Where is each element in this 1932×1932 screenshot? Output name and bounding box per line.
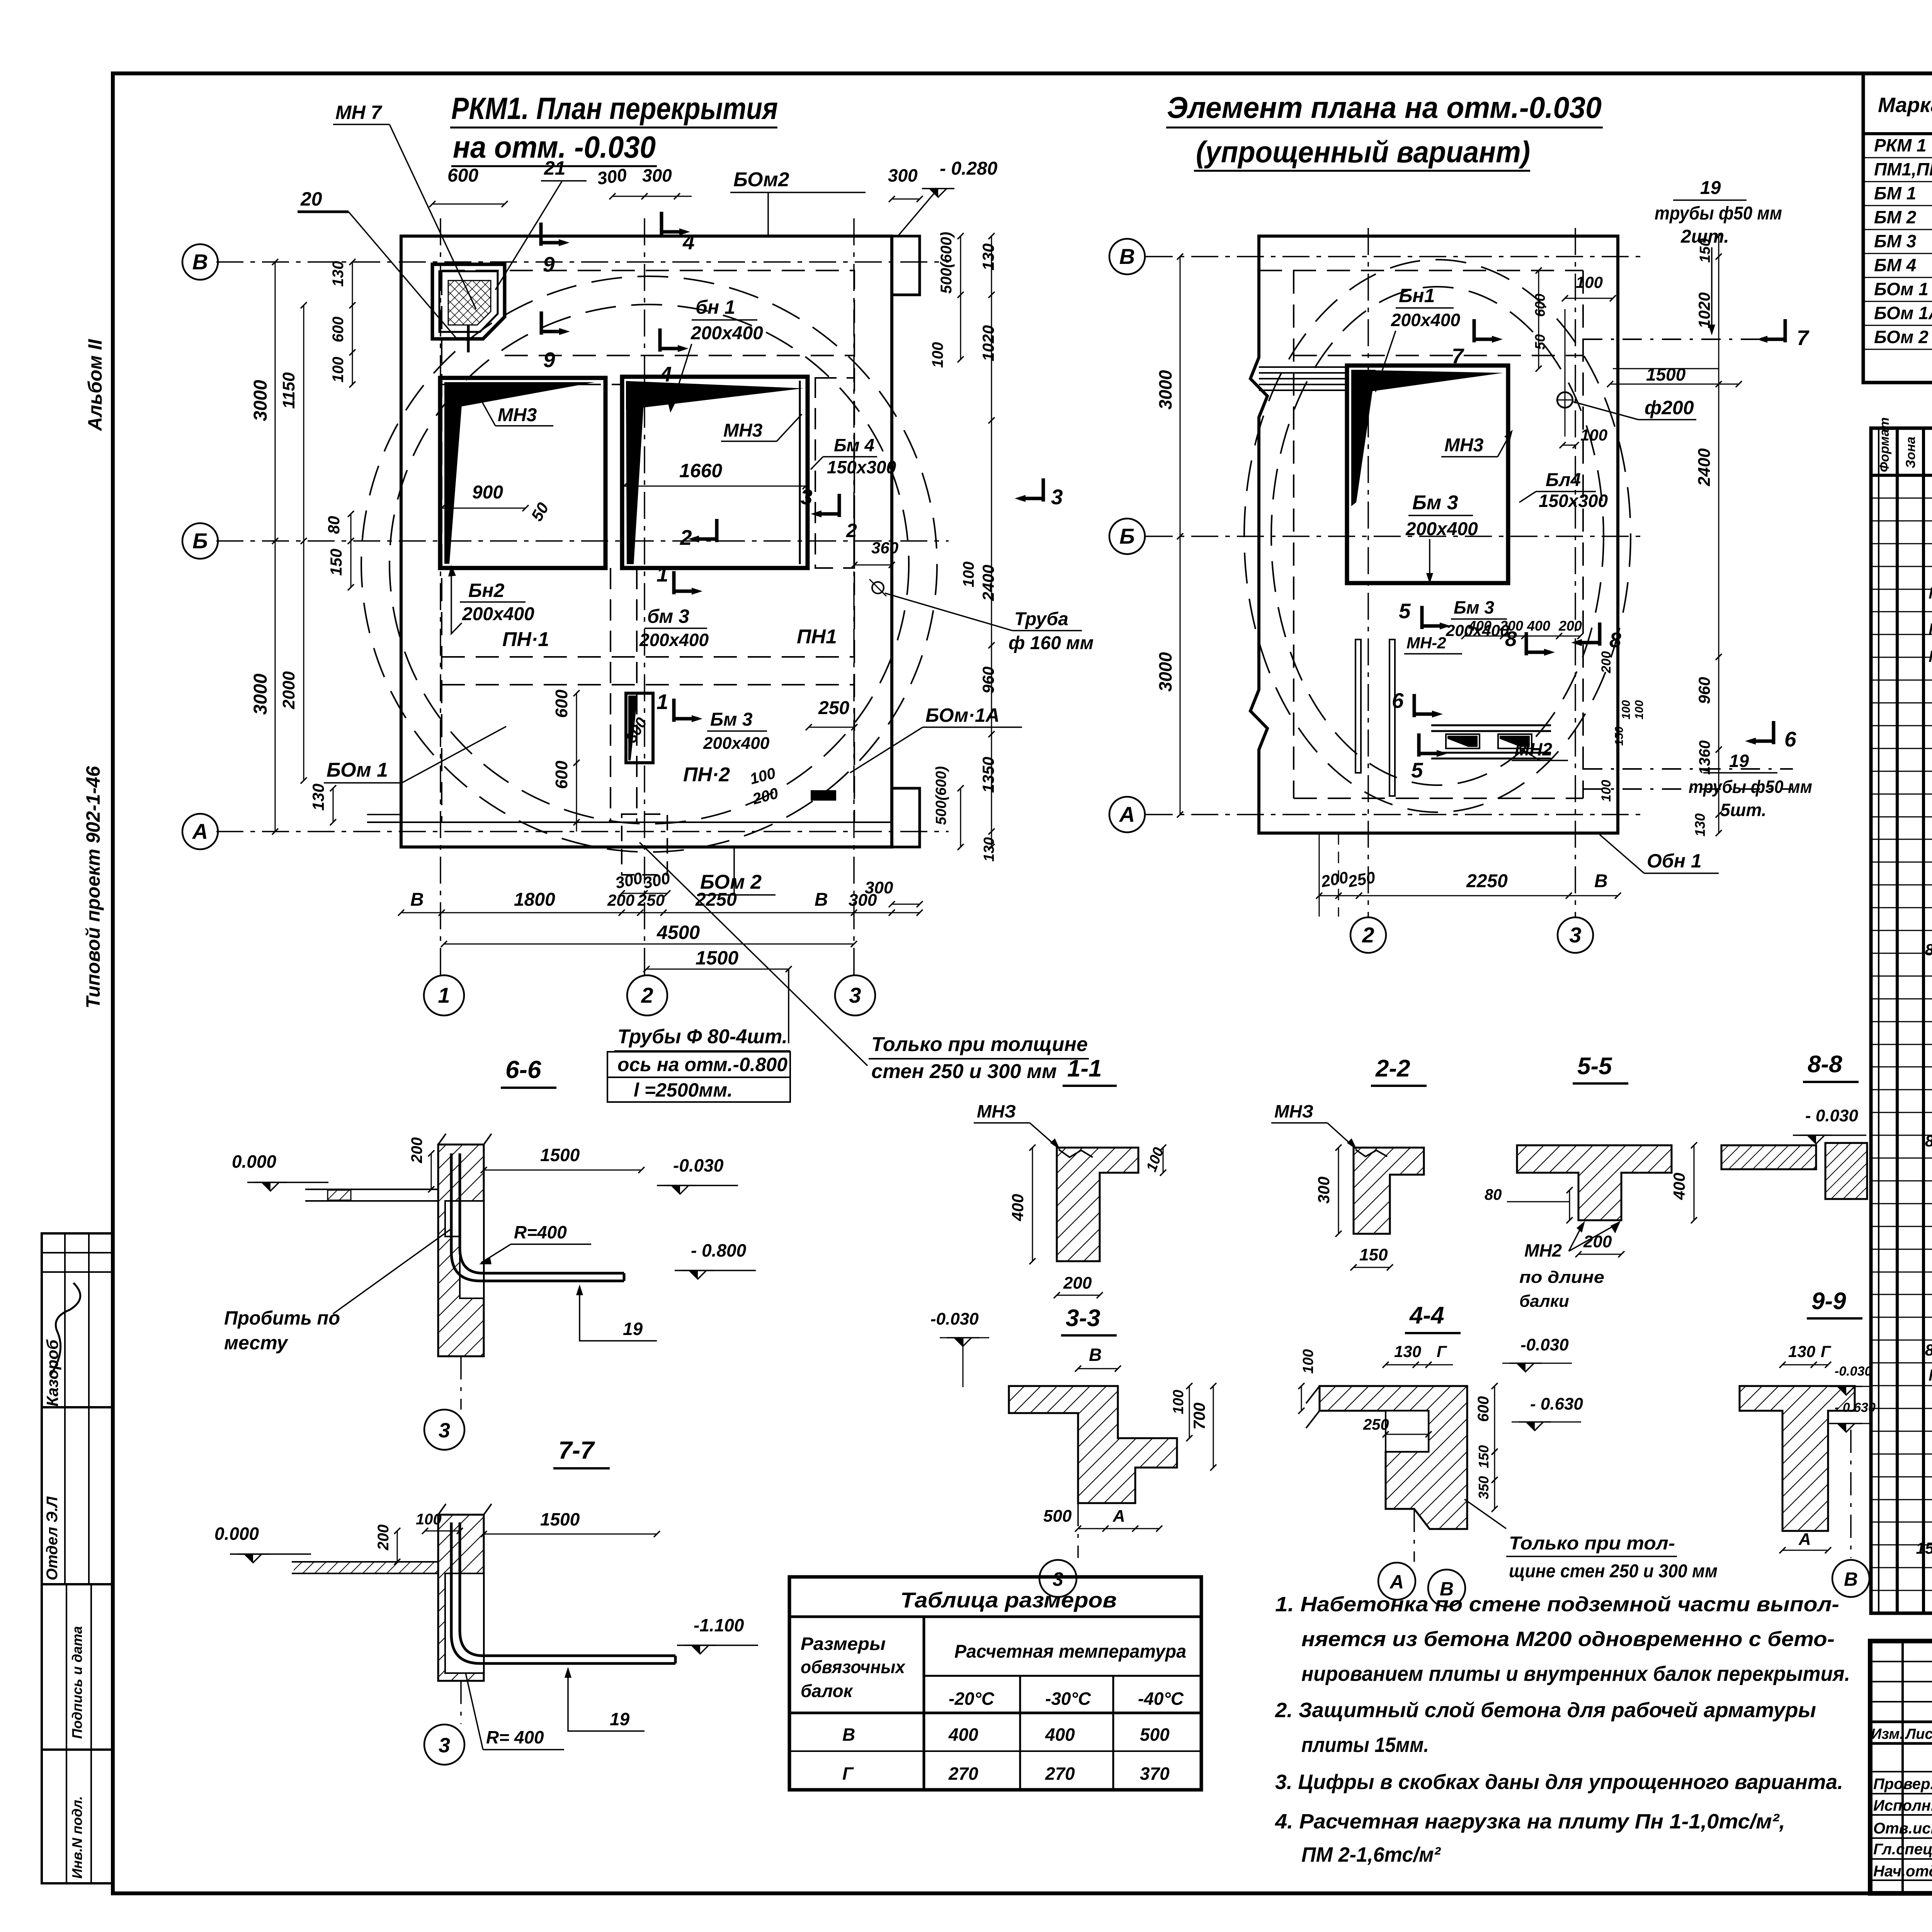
svg-text:МН2: МН2	[1524, 1240, 1562, 1260]
svg-text:Пробить по: Пробить по	[224, 1307, 340, 1329]
svg-text:100: 100	[1170, 1390, 1187, 1414]
svg-text:250: 250	[637, 891, 665, 909]
svg-text:130: 130	[1394, 1342, 1421, 1361]
svg-text:-1.100: -1.100	[694, 1615, 744, 1635]
svg-text:1350: 1350	[979, 757, 997, 793]
svg-text:370: 370	[1140, 1764, 1170, 1784]
svg-text:2250: 2250	[1466, 871, 1508, 891]
svg-text:3-3: 3-3	[1066, 1305, 1100, 1332]
svg-text:0.000: 0.000	[214, 1524, 259, 1544]
svg-text:4: 4	[660, 362, 672, 386]
svg-text:4-4: 4-4	[1409, 1302, 1444, 1329]
svg-text:2000: 2000	[279, 671, 298, 709]
plan2 dashed tank circles	[1244, 260, 1631, 812]
axis circle В	[182, 244, 218, 280]
plan2 top wall inner line	[1259, 270, 1583, 271]
section marker 1 (bottom)	[672, 571, 676, 594]
svg-text:Г: Г	[1821, 1342, 1832, 1361]
black niche on right wall	[811, 790, 836, 801]
big tank dashed circle inner	[389, 304, 909, 824]
svg-text:400: 400	[1045, 1725, 1075, 1745]
svg-text:400: 400	[1527, 618, 1550, 634]
svg-text:плиты 15мм.: плиты 15мм.	[1301, 1733, 1429, 1757]
plan2 axis line В	[1146, 256, 1644, 257]
svg-text:Исполн.: Исполн.	[1873, 1797, 1932, 1814]
svg-text:200: 200	[1599, 651, 1614, 673]
svg-text:по длине: по длине	[1519, 1268, 1604, 1287]
svg-text:Б: Б	[1119, 524, 1135, 548]
svg-text:600: 600	[1532, 294, 1548, 317]
svg-text:19: 19	[610, 1709, 630, 1729]
section 9-9 drawing	[1740, 1386, 1855, 1531]
svg-text:няется из бетона М200 одновре: няется из бетона М200 одновременно с бет…	[1301, 1628, 1835, 1651]
svg-text:270: 270	[948, 1764, 978, 1784]
axis circle 1	[424, 975, 464, 1015]
svg-text:2: 2	[641, 983, 653, 1007]
svg-text:9: 9	[543, 252, 555, 276]
svg-text:-30°С: -30°С	[1045, 1689, 1091, 1709]
svg-text:200х400: 200х400	[1391, 310, 1460, 330]
6-6 wall hatched	[438, 1145, 484, 1356]
svg-text:МН3: МН3	[498, 405, 537, 425]
svg-text:5-5: 5-5	[1577, 1053, 1612, 1080]
section marker 9 bottom	[540, 311, 543, 335]
svg-text:- 0.280: - 0.280	[940, 158, 998, 179]
svg-text:150х300: 150х300	[1539, 491, 1608, 511]
svg-text:РКМ1. План перекрытия: РКМ1. План перекрытия	[451, 91, 778, 126]
svg-text:250: 250	[818, 698, 849, 718]
svg-text:Бн2: Бн2	[468, 580, 505, 601]
svg-text:200: 200	[607, 891, 634, 909]
svg-text:Бм 3: Бм 3	[1454, 597, 1494, 617]
svg-text:R= 400: R= 400	[486, 1727, 544, 1747]
section 3-3 drawing	[1009, 1386, 1177, 1503]
svg-text:960: 960	[1695, 677, 1713, 704]
svg-text:8÷12: 8÷12	[1925, 940, 1932, 959]
svg-text:Казороб: Казороб	[43, 1339, 61, 1406]
svg-text:В: В	[815, 889, 828, 910]
svg-text:7-7: 7-7	[558, 1436, 595, 1464]
svg-text:В: В	[1089, 1345, 1102, 1365]
svg-text:БМ 3: БМ 3	[1874, 231, 1917, 251]
svg-text:200х400: 200х400	[690, 323, 763, 344]
plan2 axis circle В	[1109, 239, 1145, 274]
svg-text:А: А	[1112, 1507, 1125, 1526]
svg-text:1020: 1020	[979, 325, 997, 361]
svg-text:200х400: 200х400	[1405, 519, 1478, 539]
section 1-1 drawing	[1057, 1148, 1138, 1261]
svg-text:ПН·1: ПН·1	[502, 628, 549, 651]
svg-text:9-9: 9-9	[1811, 1288, 1846, 1315]
svg-text:Мн2: Мн2	[1929, 584, 1932, 602]
svg-text:4500: 4500	[656, 922, 700, 943]
svg-text:1500: 1500	[540, 1145, 580, 1165]
svg-text:трубы ф50 мм: трубы ф50 мм	[1689, 777, 1812, 797]
hatched opening МН7	[432, 264, 505, 339]
svg-text:Мн3: Мн3	[1929, 620, 1932, 638]
section 5-5 drawing	[1517, 1145, 1672, 1220]
svg-text:В: В	[1594, 871, 1608, 891]
svg-text:100: 100	[1599, 780, 1614, 802]
plan2 axis line Б	[1146, 536, 1644, 537]
section marker 2 (mid)	[715, 519, 719, 542]
section marker 9 top	[539, 223, 543, 246]
plan 1 wall protrusion bottom right	[892, 788, 920, 847]
opening 1 (left)	[440, 378, 605, 568]
svg-text:Расчетная температура: Расчетная температура	[954, 1641, 1186, 1662]
opening 1 bottom step	[440, 954, 441, 955]
plan 1 wall protrusion top right	[892, 236, 920, 295]
svg-text:МН3: МН3	[723, 420, 763, 441]
svg-text:МН3: МН3	[1444, 435, 1484, 456]
4-4 axis circles А В	[1413, 1509, 1415, 1562]
plan2 marker 6 right	[1772, 721, 1776, 744]
table2 row lines	[1871, 498, 1932, 499]
svg-text:1150: 1150	[279, 372, 298, 409]
svg-text:8-8: 8-8	[1808, 1051, 1842, 1078]
axis circle А	[182, 814, 218, 849]
svg-text:Отдел Э.Л: Отдел Э.Л	[44, 1496, 61, 1580]
svg-text:бн 1: бн 1	[696, 296, 735, 318]
svg-text:100: 100	[330, 357, 347, 383]
svg-text:3: 3	[801, 485, 813, 509]
axis line А	[216, 831, 949, 832]
plan2 marker 8 left	[1525, 632, 1528, 655]
svg-text:100: 100	[960, 561, 977, 587]
svg-text:Отв.исп.: Отв.исп.	[1873, 1820, 1932, 1837]
svg-text:-0.030: -0.030	[930, 1310, 979, 1328]
axis circle 3	[835, 975, 875, 1015]
svg-text:ПМ1,ПМ2: ПМ1,ПМ2	[1874, 159, 1932, 179]
svg-text:1: 1	[656, 690, 668, 714]
svg-text:5шт.: 5шт.	[1720, 800, 1767, 820]
svg-text:Зона: Зона	[1903, 437, 1918, 468]
svg-text:200: 200	[1558, 618, 1582, 634]
svg-text:МНЗ: МНЗ	[977, 1101, 1016, 1121]
plan2 beam dashed lines top	[1294, 355, 1583, 356]
svg-text:Гл.спец.: Гл.спец.	[1873, 1841, 1932, 1858]
svg-text:3000: 3000	[250, 673, 271, 715]
svg-text:Альбом II: Альбом II	[84, 339, 106, 432]
svg-text:ПН1: ПН1	[797, 626, 837, 648]
specification table 1	[1863, 73, 1932, 383]
svg-text:2400: 2400	[979, 565, 997, 601]
svg-text:ф 160 мм: ф 160 мм	[1009, 633, 1094, 653]
svg-text:Трубы Ф 80-4шт.: Трубы Ф 80-4шт.	[617, 1026, 787, 1048]
beam Бн1 dashed lines	[505, 355, 854, 356]
svg-text:200: 200	[375, 1524, 392, 1551]
svg-text:200х400: 200х400	[462, 604, 534, 624]
svg-text:19: 19	[623, 1319, 643, 1339]
stamp signature scrawl	[50, 1283, 80, 1376]
svg-text:500: 500	[1043, 1507, 1072, 1526]
section 4-4 drawing	[1320, 1386, 1467, 1529]
svg-text:А: А	[1119, 802, 1135, 827]
dashed strip right of opening 2	[815, 378, 854, 568]
title block	[1870, 1641, 1932, 1893]
svg-text:130: 130	[1692, 813, 1708, 837]
svg-text:(упрощенный вариант): (упрощенный вариант)	[1196, 135, 1530, 169]
svg-text:В: В	[192, 250, 208, 274]
svg-text:Б: Б	[192, 529, 208, 553]
plan2 axis circle 3	[1558, 917, 1593, 953]
svg-text:8: 8	[1609, 628, 1621, 652]
svg-text:Бм 3: Бм 3	[1412, 492, 1458, 514]
plan2 axis circle 2	[1350, 917, 1386, 953]
svg-text:Изм.: Изм.	[1871, 1726, 1904, 1742]
6-6 axis circle 3	[460, 1356, 462, 1410]
pipe ф160 circle	[872, 582, 884, 594]
svg-text:80: 80	[325, 516, 343, 534]
svg-text:600: 600	[1475, 1396, 1492, 1422]
svg-text:-0.030: -0.030	[1520, 1335, 1569, 1354]
plan2 pipe ф200	[1557, 392, 1573, 408]
svg-text:ось на отм.-0.800: ось на отм.-0.800	[617, 1054, 787, 1075]
svg-text:0.000: 0.000	[232, 1151, 277, 1172]
svg-text:8: 8	[1505, 627, 1517, 651]
svg-text:Бн1: Бн1	[1399, 285, 1435, 306]
svg-text:150х300: 150х300	[827, 457, 896, 477]
svg-text:80: 80	[1485, 1186, 1502, 1203]
plan2 vertical dashline axis2 details	[1319, 833, 1320, 917]
svg-text:19: 19	[1729, 751, 1749, 771]
section 2-2 drawing	[1354, 1148, 1424, 1234]
plan2 marker 5 top	[1420, 606, 1424, 629]
svg-text:50: 50	[1532, 334, 1548, 350]
svg-text:150: 150	[1613, 726, 1626, 746]
svg-text:200х400: 200х400	[703, 734, 770, 753]
svg-text:8÷14: 8÷14	[1925, 1132, 1932, 1150]
svg-text:4: 4	[682, 230, 695, 254]
svg-text:200х400: 200х400	[639, 630, 709, 650]
svg-text:ПМ 2-1,6тс/м²: ПМ 2-1,6тс/м²	[1301, 1843, 1441, 1866]
svg-text:6: 6	[1392, 689, 1404, 713]
svg-text:- 0.630: - 0.630	[1530, 1395, 1583, 1413]
plan2 section marker 7 right	[1784, 319, 1787, 342]
svg-text:1500: 1500	[696, 947, 738, 969]
svg-text:Только при толщине: Только при толщине	[871, 1033, 1088, 1056]
svg-text:Марка: Марка	[1878, 94, 1932, 117]
svg-text:МНЗ: МНЗ	[1274, 1101, 1313, 1121]
plan2 marker 8 right	[1598, 622, 1602, 646]
svg-text:Г: Г	[842, 1764, 854, 1784]
svg-text:3000: 3000	[1155, 652, 1175, 692]
svg-text:150: 150	[1359, 1245, 1388, 1264]
svg-text:300: 300	[849, 891, 877, 910]
big tank dashed circle outer	[361, 276, 937, 852]
plan2 pipes bottom dash lines	[1583, 768, 1793, 770]
plan2 big opening	[1347, 366, 1508, 583]
svg-text:В: В	[842, 1725, 855, 1745]
svg-text:щине стен 250 и 300 мм: щине стен 250 и 300 мм	[1509, 1561, 1718, 1582]
axis line Б	[216, 540, 949, 542]
svg-text:100: 100	[1633, 700, 1646, 719]
plan2 axis line 2	[1367, 228, 1369, 917]
axis circle 2	[627, 975, 667, 1015]
svg-text:300: 300	[888, 165, 918, 185]
svg-text:9: 9	[543, 348, 555, 372]
svg-text:700: 700	[1190, 1403, 1208, 1430]
svg-text:БОм 2: БОм 2	[1874, 327, 1929, 347]
svg-text:2-2: 2-2	[1375, 1055, 1410, 1082]
beam dashed vertical near axis 2	[610, 568, 611, 822]
svg-text:360: 360	[871, 539, 898, 557]
svg-text:1360: 1360	[1696, 740, 1713, 775]
svg-text:3: 3	[1569, 923, 1581, 947]
svg-text:-0.030: -0.030	[1835, 1364, 1872, 1379]
svg-text:- 0.800: - 0.800	[691, 1240, 747, 1260]
left bottom stamp table	[42, 1233, 113, 1883]
svg-text:БОм 1: БОм 1	[327, 759, 388, 781]
svg-text:3: 3	[439, 1734, 450, 1757]
svg-text:МН-2: МН-2	[1406, 634, 1446, 652]
dashed opening in bottom wall	[622, 814, 667, 875]
svg-text:130: 130	[1788, 1342, 1815, 1361]
svg-text:РКМ 1: РКМ 1	[1874, 135, 1927, 155]
plan 1 inner wall face (dashed slab edge)	[442, 270, 854, 822]
svg-text:100: 100	[929, 342, 946, 368]
svg-text:БМ 1: БМ 1	[1874, 183, 1916, 203]
svg-text:Таблица размеров: Таблица размеров	[900, 1588, 1117, 1612]
svg-text:l =2500мм.: l =2500мм.	[634, 1079, 733, 1101]
axis line 1	[440, 218, 441, 975]
svg-text:Подпись и дата: Подпись и дата	[69, 1626, 85, 1739]
svg-text:130: 130	[979, 243, 997, 270]
svg-text:Провер.: Провер.	[1873, 1776, 1932, 1793]
svg-text:3: 3	[1053, 1568, 1063, 1590]
7-7 pipe	[451, 1522, 675, 1663]
svg-text:В: В	[1844, 1568, 1858, 1590]
svg-text:R=400: R=400	[514, 1222, 567, 1242]
svg-text:1: 1	[656, 562, 668, 586]
svg-text:150: 150	[1697, 238, 1713, 263]
svg-text:МН 7: МН 7	[335, 102, 383, 123]
svg-text:5: 5	[1399, 599, 1411, 623]
svg-text:балки: балки	[1519, 1292, 1569, 1311]
svg-text:1. Набетонка по стене подзем: 1. Набетонка по стене подземной части вы…	[1275, 1593, 1839, 1616]
svg-text:100: 100	[416, 1511, 442, 1528]
svg-text:Труба: Труба	[1014, 609, 1068, 629]
svg-text:300: 300	[642, 165, 672, 185]
таблица размеров	[789, 1577, 1201, 1790]
section 7-7 drawing	[292, 1561, 438, 1563]
section marker 3 2 (mid)	[838, 494, 841, 517]
svg-text:6-6: 6-6	[505, 1056, 541, 1083]
section marker 1 lower	[672, 699, 676, 722]
svg-text:БМ 2: БМ 2	[1874, 207, 1917, 227]
plan2 marker 5 bottom	[1417, 733, 1421, 757]
svg-text:БОм 1А: БОм 1А	[1874, 303, 1932, 323]
svg-text:Формат: Формат	[1877, 417, 1892, 472]
svg-text:100: 100	[1300, 1349, 1316, 1374]
svg-text:300: 300	[596, 165, 628, 189]
svg-text:1500: 1500	[1646, 364, 1686, 384]
svg-text:15÷16: 15÷16	[1916, 1539, 1932, 1557]
svg-text:350: 350	[1476, 1476, 1492, 1499]
section 6-6 drawing	[305, 1189, 438, 1190]
svg-text:Типовой проект 902-1-46: Типовой проект 902-1-46	[82, 765, 104, 1009]
svg-text:нированием плиты и внутренних: нированием плиты и внутренних балок пере…	[1301, 1662, 1850, 1685]
svg-text:2: 2	[1362, 923, 1374, 947]
svg-text:600: 600	[552, 760, 571, 789]
svg-text:1500: 1500	[540, 1509, 580, 1529]
svg-text:1660: 1660	[679, 460, 722, 481]
svg-text:2250: 2250	[695, 889, 737, 910]
plan2 axis line А	[1146, 814, 1644, 815]
svg-text:Мн2: Мн2	[1929, 1366, 1932, 1384]
svg-text:3000: 3000	[250, 380, 271, 421]
svg-text:150: 150	[327, 549, 345, 576]
svg-text:А: А	[1389, 1571, 1404, 1593]
opening 2 (right)	[622, 377, 808, 568]
plan2 vertical bars МН-2	[1355, 639, 1361, 773]
axis line 2	[644, 218, 645, 975]
svg-text:ПН·2: ПН·2	[683, 764, 730, 786]
svg-text:2: 2	[846, 520, 857, 541]
svg-text:19: 19	[1700, 178, 1721, 198]
svg-text:200: 200	[1063, 1274, 1092, 1293]
svg-text:2400: 2400	[1695, 448, 1714, 486]
leader to note (только при толщине)	[639, 842, 867, 1066]
svg-text:400: 400	[948, 1725, 978, 1745]
svg-text:1020: 1020	[1695, 293, 1713, 328]
svg-text:2: 2	[680, 526, 692, 549]
svg-text:8÷14: 8÷14	[1925, 1341, 1932, 1359]
svg-text:стен 250 и 300 мм: стен 250 и 300 мм	[871, 1060, 1057, 1083]
svg-text:трубы ф50 мм: трубы ф50 мм	[1655, 203, 1782, 224]
svg-text:300: 300	[1315, 1177, 1333, 1204]
svg-text:Г: Г	[1437, 1342, 1447, 1361]
svg-text:Лист: Лист	[1905, 1726, 1932, 1742]
small opening with wedge	[626, 693, 653, 763]
svg-text:балок: балок	[801, 1681, 854, 1701]
plan 1 outer wall	[401, 236, 892, 847]
section marker 4 bottom	[658, 328, 662, 352]
svg-text:960: 960	[979, 667, 997, 694]
svg-text:Обн 1: Обн 1	[1647, 850, 1702, 872]
svg-text:20: 20	[300, 188, 322, 210]
svg-text:500: 500	[1140, 1725, 1170, 1745]
section marker 3 right	[1042, 478, 1045, 502]
plan2 slab lines left band	[1259, 366, 1347, 368]
svg-text:270: 270	[1045, 1764, 1075, 1784]
svg-text:1: 1	[438, 983, 450, 1007]
svg-text:В: В	[1119, 244, 1135, 269]
svg-text:Размеры: Размеры	[801, 1634, 886, 1654]
3-3 axis circle 3	[1077, 1503, 1079, 1558]
plan2 axis circle А	[1109, 797, 1145, 832]
svg-text:-20°С: -20°С	[949, 1689, 995, 1709]
svg-text:Бл4: Бл4	[1546, 470, 1581, 490]
svg-text:130: 130	[330, 261, 347, 287]
plan2 section marker 7 left	[1473, 319, 1476, 342]
svg-text:БМ 4: БМ 4	[1874, 255, 1916, 275]
svg-text:5: 5	[1411, 758, 1423, 782]
svg-text:6: 6	[1784, 727, 1796, 751]
svg-text:БОм·1А: БОм·1А	[925, 704, 1000, 726]
svg-text:400: 400	[1009, 1194, 1027, 1221]
plan2 channel insert 2	[1498, 734, 1532, 748]
axis line 3	[853, 218, 855, 975]
svg-text:3. Цифры в скобках даны для уп: 3. Цифры в скобках даны для упрощенного …	[1275, 1770, 1843, 1794]
axis circle Б	[182, 523, 218, 559]
svg-text:130: 130	[309, 784, 327, 811]
svg-text:900: 900	[472, 482, 503, 503]
svg-text:3: 3	[439, 1419, 450, 1442]
svg-text:100: 100	[1620, 700, 1633, 719]
plan2 marker 6 left	[1413, 694, 1416, 717]
svg-text:- 0.030: - 0.030	[1805, 1106, 1859, 1125]
